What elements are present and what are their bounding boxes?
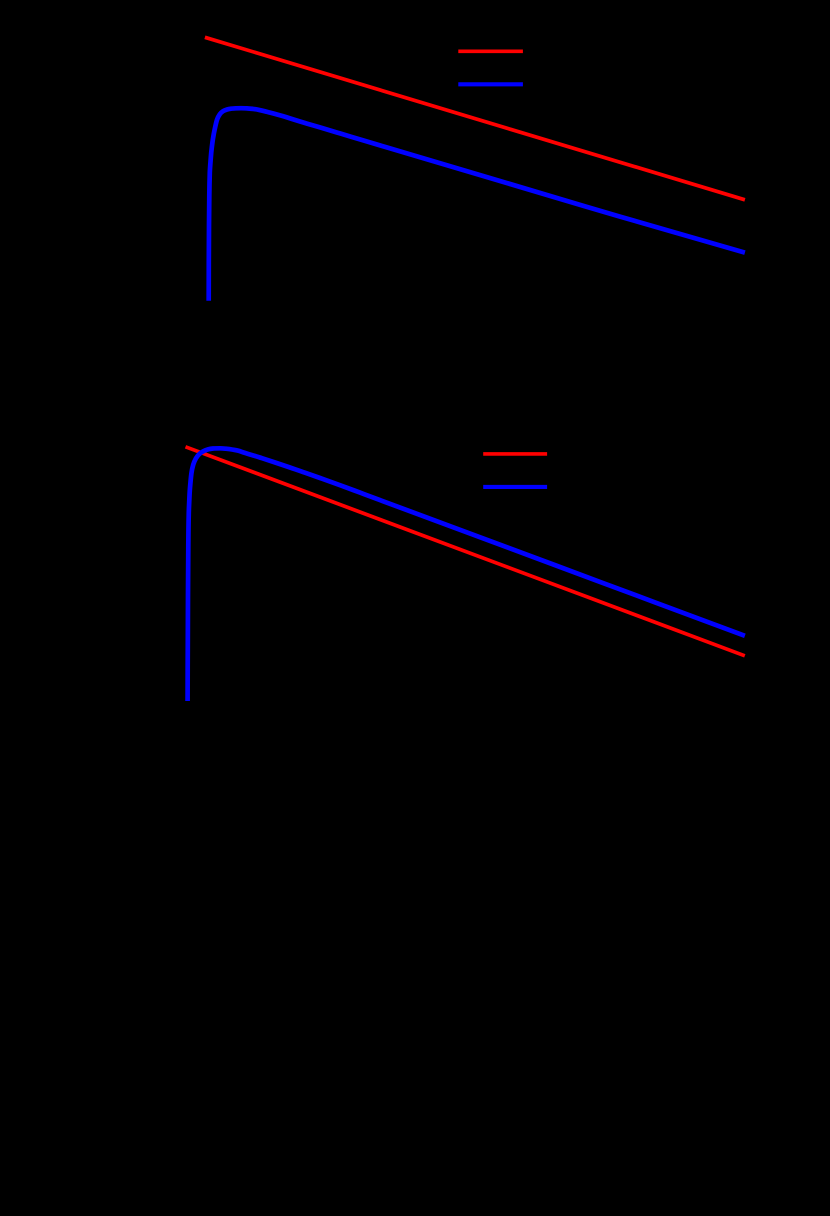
- top panel: red power-law line: [205, 37, 745, 200]
- bottom panel: blue cutoff curve: [188, 448, 745, 701]
- bottom panel legend: red sample line: [483, 452, 547, 456]
- top panel legend: blue sample line: [458, 82, 523, 86]
- top panel legend: red sample line: [458, 49, 523, 53]
- top panel: blue cutoff curve: [209, 108, 745, 301]
- bottom panel: red power-law line: [186, 447, 745, 656]
- bottom panel legend: blue sample line: [483, 485, 547, 489]
